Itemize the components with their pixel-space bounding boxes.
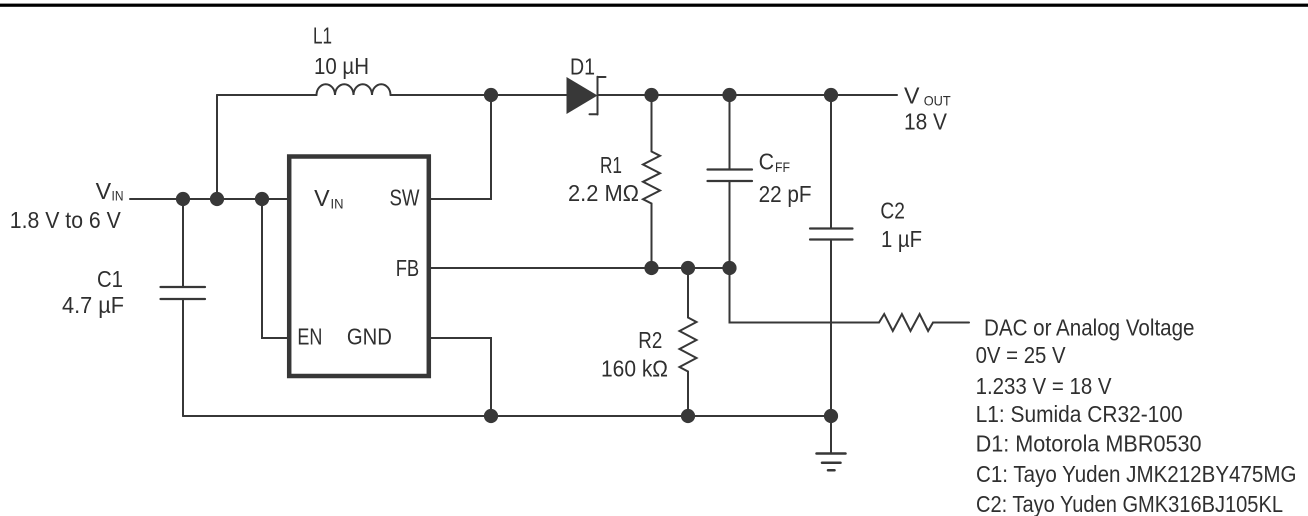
svg-text:FF: FF — [775, 159, 790, 175]
wire left vertical from top rail to Vin row — [216, 95, 218, 199]
wire C1 to bottom rail — [182, 299, 184, 416]
svg-text:D1: D1 — [570, 54, 595, 80]
svg-text:R2: R2 — [638, 327, 662, 353]
svg-text:SW: SW — [390, 185, 420, 211]
svg-text:1.233 V = 18 V: 1.233 V = 18 V — [976, 373, 1113, 399]
wire top rail diode to Vout — [598, 94, 897, 96]
svg-text:IN: IN — [331, 196, 344, 212]
svg-text:0V = 25 V: 0V = 25 V — [976, 342, 1067, 368]
inductor L1 — [317, 84, 391, 95]
svg-text:DAC or Analog Voltage: DAC or Analog Voltage — [984, 315, 1195, 341]
node top rail junctions — [176, 88, 838, 423]
node FB row junctions — [644, 261, 658, 275]
wire DAC branch from FB row — [730, 268, 880, 323]
wire GND pin to bottom rail — [431, 338, 491, 416]
svg-text:18 V: 18 V — [904, 109, 948, 135]
svg-text:C1: C1 — [97, 266, 123, 292]
svg-text:C2: Tayo Yuden GMK316BJ105KL: C2: Tayo Yuden GMK316BJ105KL — [976, 491, 1283, 516]
diode D1 — [567, 77, 606, 115]
svg-text:GND: GND — [347, 324, 392, 350]
svg-text:D1: Motorola MBR0530: D1: Motorola MBR0530 — [976, 431, 1202, 457]
wire DAC to label — [933, 322, 969, 324]
wire ground stub — [830, 416, 832, 454]
svg-text:L1: L1 — [313, 23, 332, 49]
svg-text:V: V — [96, 178, 112, 204]
wire top rail left segment — [217, 94, 317, 96]
svg-text:L1: Sumida CR32-100: L1: Sumida CR32-100 — [976, 401, 1183, 427]
wire Vin input row — [130, 198, 287, 200]
svg-text:OUT: OUT — [924, 93, 951, 109]
svg-text:10 µH: 10 µH — [314, 53, 369, 79]
capacitor CFF — [708, 95, 753, 268]
wire bottom rail — [183, 415, 831, 417]
svg-text:160 kΩ: 160 kΩ — [601, 356, 668, 382]
resistor R2 — [680, 268, 697, 416]
svg-text:22 pF: 22 pF — [759, 181, 812, 207]
svg-text:IN: IN — [112, 188, 124, 204]
wire EN branch — [262, 199, 287, 338]
svg-text:2.2 MΩ: 2.2 MΩ — [568, 180, 639, 206]
capacitor C2 — [810, 95, 853, 416]
svg-text:1.8 V to 6 V: 1.8 V to 6 V — [10, 207, 122, 233]
svg-text:C1: Tayo Yuden JMK212BY475MG: C1: Tayo Yuden JMK212BY475MG — [976, 461, 1297, 487]
svg-text:FB: FB — [396, 255, 420, 281]
op-amp U1 regulator box — [289, 157, 429, 377]
wire C1 branch down — [182, 199, 184, 287]
svg-text:C2: C2 — [880, 198, 905, 224]
svg-text:1 µF: 1 µF — [881, 226, 922, 252]
resistor R1 — [643, 95, 660, 268]
ground — [817, 454, 846, 471]
wire FB row — [431, 267, 730, 269]
wire SW to top rail — [431, 95, 491, 199]
svg-text:V: V — [904, 83, 920, 109]
svg-text:V: V — [314, 185, 330, 211]
svg-text:4.7 µF: 4.7 µF — [62, 292, 124, 318]
border frame top bar — [0, 4, 1308, 7]
resistor DAC series — [879, 314, 933, 331]
svg-text:C: C — [759, 149, 775, 175]
wire top rail inductor to diode — [391, 94, 567, 96]
svg-text:EN: EN — [297, 324, 322, 350]
capacitor C1 — [161, 287, 206, 299]
node Vin row junctions — [176, 192, 190, 206]
node bottom rail junctions — [484, 409, 498, 423]
svg-text:R1: R1 — [600, 152, 622, 178]
